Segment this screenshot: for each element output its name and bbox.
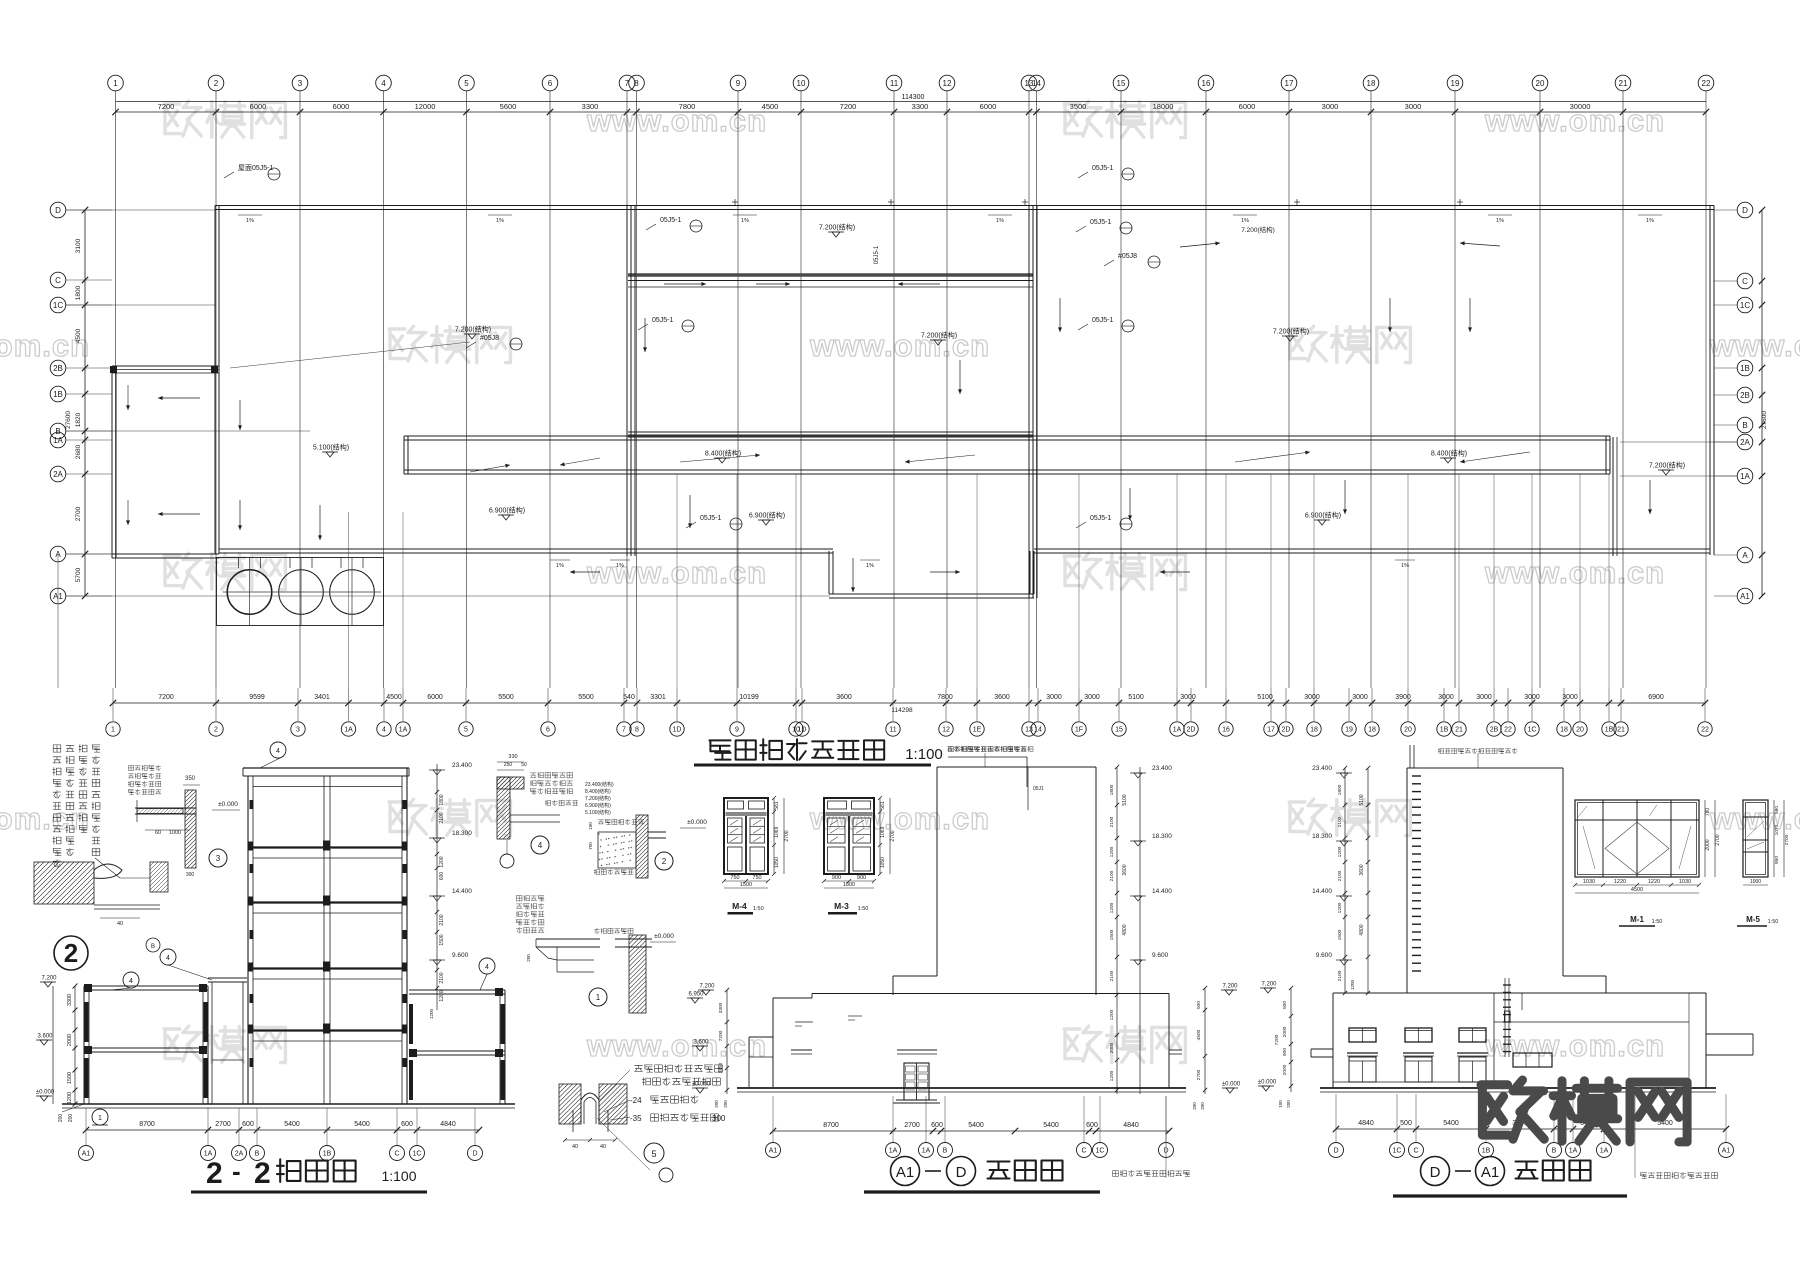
svg-text:05J5-1: 05J5-1	[1092, 317, 1114, 324]
svg-text:16: 16	[1202, 79, 1211, 88]
svg-text:900: 900	[832, 875, 841, 881]
svg-text:600: 600	[439, 872, 445, 881]
circled 2 big detail mark	[54, 936, 88, 970]
svg-text:1200: 1200	[67, 1092, 73, 1104]
svg-text:6900: 6900	[1648, 694, 1664, 701]
svg-text:5.100(结构): 5.100(结构)	[313, 443, 349, 452]
svg-text:17: 17	[1267, 727, 1275, 734]
svg-text:1A: 1A	[922, 1148, 931, 1155]
svg-text:2000: 2000	[1705, 839, 1711, 850]
svg-text:5: 5	[464, 727, 468, 734]
svg-text:4500: 4500	[1631, 887, 1643, 893]
svg-text:23.400: 23.400	[1312, 765, 1332, 772]
svg-text:4: 4	[166, 955, 170, 962]
svg-text:350: 350	[185, 776, 196, 782]
svg-text:1A: 1A	[344, 727, 353, 734]
svg-text:19: 19	[1345, 727, 1353, 734]
svg-text:1D: 1D	[798, 727, 807, 734]
svg-text:2000: 2000	[1282, 1026, 1288, 1037]
svg-text:3000: 3000	[1438, 694, 1454, 701]
svg-text:1A: 1A	[1740, 472, 1750, 481]
svg-text:1000: 1000	[1750, 879, 1761, 885]
svg-text:5400: 5400	[284, 1121, 300, 1128]
svg-text:20: 20	[1536, 79, 1545, 88]
svg-text:2100: 2100	[1109, 970, 1115, 981]
svg-text:D: D	[55, 206, 61, 215]
svg-text:5700: 5700	[75, 567, 82, 582]
svg-text:A1: A1	[1481, 1164, 1499, 1181]
svg-text:18.300: 18.300	[452, 830, 472, 837]
svg-text:200: 200	[714, 1100, 719, 1108]
svg-text:7: 7	[622, 727, 626, 734]
svg-text:600: 600	[401, 1121, 413, 1128]
svg-text:2100: 2100	[1337, 816, 1343, 827]
window M-4	[724, 798, 768, 874]
svg-text:200: 200	[1286, 1100, 1291, 1108]
svg-text:200: 200	[1192, 1102, 1197, 1110]
elevation A1-D right outer chain	[1204, 988, 1206, 1094]
svg-text:2: 2	[254, 1157, 271, 1190]
svg-text:900: 900	[1282, 1048, 1288, 1056]
elevation A1-D low building	[812, 993, 1169, 995]
svg-text:23.400(结构): 23.400(结构)	[585, 781, 614, 788]
elevation A1-D bottom bubbles	[766, 1143, 781, 1158]
svg-text:6.900(结构): 6.900(结构)	[749, 511, 785, 520]
svg-text:2100: 2100	[1109, 816, 1115, 827]
svg-text:950: 950	[1774, 856, 1780, 864]
svg-text:5500: 5500	[498, 694, 514, 701]
svg-text:B: B	[1552, 1148, 1557, 1155]
svg-text:5500: 5500	[578, 694, 594, 701]
svg-text:1A: 1A	[53, 436, 63, 445]
svg-text:6000: 6000	[333, 102, 350, 111]
svg-text:3500: 3500	[1070, 102, 1087, 111]
svg-text:9.600: 9.600	[452, 952, 469, 959]
svg-text:1C: 1C	[1096, 1148, 1105, 1155]
svg-text:3000: 3000	[1352, 694, 1368, 701]
detail 5	[559, 1084, 581, 1124]
svg-text:18: 18	[1310, 727, 1318, 734]
svg-text:100: 100	[1278, 1100, 1283, 1108]
svg-text:1: 1	[596, 993, 601, 1002]
elevation D-A1 title	[1421, 1157, 1450, 1186]
svg-text:1200: 1200	[1109, 846, 1115, 857]
svg-text:2100: 2100	[1337, 970, 1343, 981]
svg-text:7800: 7800	[679, 102, 696, 111]
svg-text:1C: 1C	[1393, 1148, 1402, 1155]
svg-text:2B: 2B	[53, 364, 63, 373]
svg-text:9.600: 9.600	[1152, 952, 1169, 959]
detail 2	[636, 815, 648, 878]
svg-text:D: D	[1742, 206, 1748, 215]
svg-text:5400: 5400	[968, 1122, 984, 1129]
svg-text:1200: 1200	[439, 856, 445, 867]
svg-text:1:50: 1:50	[753, 906, 764, 912]
svg-text:200: 200	[58, 1114, 64, 1123]
svg-text:±0.000: ±0.000	[218, 801, 238, 808]
big watermark OMW dark	[1481, 1080, 1544, 1139]
svg-text:1E: 1E	[973, 727, 982, 734]
svg-text:3000: 3000	[1322, 102, 1339, 111]
svg-text:±0.000: ±0.000	[1258, 1080, 1277, 1086]
svg-text:2100: 2100	[1109, 870, 1115, 881]
svg-text:1069: 1069	[774, 826, 780, 837]
elevation A1-D top note	[947, 747, 952, 751]
svg-text:18: 18	[1560, 727, 1568, 734]
svg-text:1050: 1050	[774, 857, 780, 868]
svg-text:05J5-1: 05J5-1	[1090, 515, 1112, 522]
svg-text:2700: 2700	[1784, 834, 1790, 845]
svg-text:M-1: M-1	[1630, 915, 1644, 924]
elevation A1-D tower	[937, 766, 1096, 768]
slope arrows	[319, 505, 321, 540]
svg-text:19: 19	[1451, 79, 1460, 88]
svg-text:2A: 2A	[1740, 438, 1750, 447]
svg-text:23.400: 23.400	[1152, 765, 1172, 772]
far left eaves detail hatch	[34, 862, 94, 904]
svg-text:2700: 2700	[1196, 1069, 1202, 1080]
svg-text:3000: 3000	[1304, 694, 1320, 701]
svg-text:05J5-1: 05J5-1	[700, 515, 722, 522]
svg-text:2000: 2000	[1282, 1064, 1288, 1075]
svg-text:14: 14	[1032, 79, 1041, 88]
svg-text:14.400: 14.400	[1312, 888, 1332, 895]
axis 13/14 double wall	[1028, 205, 1030, 598]
svg-text:2A: 2A	[53, 470, 63, 479]
svg-text:500: 500	[1196, 1001, 1202, 1009]
svg-text:17: 17	[1285, 79, 1294, 88]
svg-text:1:100: 1:100	[381, 1168, 416, 1184]
svg-text:±0.000: ±0.000	[1222, 1082, 1241, 1088]
svg-text:900: 900	[857, 875, 866, 881]
svg-text:8.400(结构): 8.400(结构)	[1431, 449, 1467, 458]
svg-text:3000: 3000	[1084, 694, 1100, 701]
svg-text:1:100: 1:100	[905, 746, 943, 763]
roof plan outline	[215, 205, 1714, 207]
svg-text:1B: 1B	[323, 1151, 332, 1158]
svg-text:#05J8: #05J8	[480, 335, 499, 342]
section dims left	[52, 986, 54, 1104]
svg-text:18.300: 18.300	[1152, 833, 1172, 840]
svg-text:14.400: 14.400	[1152, 888, 1172, 895]
svg-text:1: 1	[111, 727, 115, 734]
roof plan title	[709, 740, 730, 759]
svg-text:7.200(结构): 7.200(结构)	[585, 795, 611, 802]
svg-text:7200: 7200	[1274, 1034, 1280, 1045]
svg-text:1%: 1%	[616, 563, 624, 569]
svg-text:1220: 1220	[1648, 879, 1660, 885]
svg-text:4: 4	[382, 727, 386, 734]
svg-text:18000: 18000	[1153, 102, 1174, 111]
svg-text:A1: A1	[1740, 592, 1750, 601]
elevation D-A1 top note	[1438, 748, 1443, 753]
svg-text:1C: 1C	[53, 301, 63, 310]
svg-text:500: 500	[1400, 1120, 1412, 1127]
svg-text:A1: A1	[896, 1164, 914, 1181]
svg-text:600: 600	[242, 1121, 254, 1128]
svg-text:780: 780	[1705, 808, 1711, 817]
svg-text:4: 4	[129, 978, 133, 985]
svg-text:1800: 1800	[439, 794, 445, 805]
svg-text:3: 3	[296, 727, 300, 734]
svg-text:±0.000: ±0.000	[654, 933, 674, 940]
svg-text:250: 250	[504, 762, 513, 768]
elevation A1-D left chain	[726, 990, 728, 1094]
svg-text:B: B	[943, 1148, 948, 1155]
svg-text:7.200(结构): 7.200(结构)	[1241, 225, 1275, 234]
svg-text:27600: 27600	[65, 411, 72, 429]
svg-text:1C: 1C	[1528, 727, 1537, 734]
svg-text:200: 200	[526, 954, 531, 962]
svg-text:4: 4	[276, 748, 280, 755]
svg-text:www.om.cn: www.om.cn	[1709, 801, 1800, 836]
svg-text:6.900(结构): 6.900(结构)	[585, 802, 611, 809]
small windows mid part	[1513, 1053, 1552, 1067]
svg-text:12: 12	[943, 79, 952, 88]
svg-text:2D: 2D	[1187, 727, 1196, 734]
svg-text:www.om.cn: www.om.cn	[0, 801, 90, 836]
svg-text:1500: 1500	[67, 1072, 73, 1084]
svg-text:5100: 5100	[1128, 694, 1144, 701]
svg-text:18: 18	[1368, 727, 1376, 734]
elevation D-A1 bottom bubbles	[1329, 1143, 1344, 1158]
svg-text:www.om.cn: www.om.cn	[1484, 1028, 1665, 1063]
svg-text:6.900(结构): 6.900(结构)	[489, 506, 525, 515]
svg-text:4800: 4800	[1122, 924, 1128, 935]
svg-text:8: 8	[635, 727, 639, 734]
svg-text:4500: 4500	[386, 694, 402, 701]
section 2-2 tower	[243, 767, 409, 769]
svg-text:1%: 1%	[866, 563, 874, 569]
svg-text:3: 3	[216, 854, 221, 863]
svg-text:1500: 1500	[1109, 929, 1115, 940]
svg-text:14: 14	[1034, 727, 1042, 734]
svg-text:4: 4	[381, 79, 386, 88]
svg-text:300: 300	[186, 872, 195, 878]
elevation D-A1 left outer chain	[1290, 988, 1292, 1092]
svg-text:C: C	[1742, 277, 1748, 286]
section bottom dims	[86, 1129, 479, 1131]
svg-text:3: 3	[298, 79, 303, 88]
svg-text:40: 40	[117, 921, 123, 927]
svg-text:www.om.cn: www.om.cn	[809, 801, 990, 836]
svg-text:20: 20	[1404, 727, 1412, 734]
svg-text:1030: 1030	[1583, 879, 1595, 885]
svg-text:1A: 1A	[399, 727, 408, 734]
svg-text:3301: 3301	[650, 694, 666, 701]
svg-text:40: 40	[600, 1144, 606, 1150]
svg-text:3850: 3850	[718, 1062, 724, 1073]
svg-text:1B: 1B	[1440, 727, 1449, 734]
svg-text:40: 40	[572, 1144, 578, 1150]
svg-text:114300: 114300	[902, 94, 925, 101]
svg-text:www.om.cn: www.om.cn	[809, 328, 990, 363]
svg-text:4500: 4500	[1196, 1029, 1202, 1040]
svg-text:7.200(结构): 7.200(结构)	[1273, 327, 1309, 336]
svg-text:1A: 1A	[1600, 1148, 1609, 1155]
svg-text:3401: 3401	[314, 694, 330, 701]
svg-text:18: 18	[1367, 79, 1376, 88]
svg-text:C: C	[55, 276, 61, 285]
svg-text:4840: 4840	[1123, 1122, 1139, 1129]
svg-text:M-3: M-3	[834, 901, 849, 911]
svg-text:6000: 6000	[980, 102, 997, 111]
svg-text:2700: 2700	[890, 830, 896, 841]
svg-text:D: D	[956, 1164, 967, 1181]
svg-text:D: D	[1430, 1164, 1441, 1181]
elevation A1-D right dim chain	[1116, 767, 1118, 1094]
svg-text:22: 22	[1701, 727, 1709, 734]
svg-text:1%: 1%	[1496, 218, 1504, 224]
svg-text:1%: 1%	[496, 218, 504, 224]
svg-text:M-5: M-5	[1746, 915, 1760, 924]
svg-text:3100: 3100	[75, 238, 82, 253]
svg-text:7.200(结构): 7.200(结构)	[921, 331, 957, 340]
svg-text:10199: 10199	[739, 694, 759, 701]
grid lines vertical	[115, 91, 117, 688]
svg-text:580: 580	[1774, 806, 1780, 814]
svg-text:200: 200	[68, 1114, 74, 1123]
svg-text:05J5-1: 05J5-1	[652, 317, 674, 324]
svg-text:600: 600	[1086, 1122, 1098, 1129]
svg-text:1:50: 1:50	[858, 906, 869, 912]
svg-text:6000: 6000	[1239, 102, 1256, 111]
svg-text:3300: 3300	[718, 1002, 724, 1013]
elevation A1-D door canopy	[897, 1049, 937, 1051]
roof plan column grid bubbles top	[108, 75, 124, 91]
top dimension lines	[116, 101, 1707, 103]
svg-text:9599: 9599	[249, 694, 265, 701]
svg-text:1A: 1A	[1173, 727, 1182, 734]
svg-text:2100: 2100	[439, 972, 445, 983]
svg-text:6.950: 6.950	[688, 992, 704, 998]
svg-text:2000: 2000	[67, 1034, 73, 1046]
svg-text:2100: 2100	[439, 812, 445, 823]
svg-text:7.200(结构): 7.200(结构)	[819, 223, 855, 232]
svg-text:581: 581	[774, 801, 780, 810]
section bottom bubbles	[79, 1146, 94, 1161]
elevation A1-D ground	[737, 1087, 1186, 1089]
svg-text:12: 12	[942, 727, 950, 734]
svg-text:1C: 1C	[1740, 301, 1750, 310]
svg-text:15: 15	[1115, 727, 1123, 734]
svg-text:1200: 1200	[1337, 846, 1343, 857]
window M-5	[1743, 800, 1768, 877]
svg-text:6: 6	[546, 727, 550, 734]
svg-text:3300: 3300	[67, 994, 73, 1006]
svg-text:1A: 1A	[1569, 1148, 1578, 1155]
svg-text:1%: 1%	[556, 563, 564, 569]
svg-text:1%: 1%	[996, 218, 1004, 224]
svg-text:-24: -24	[630, 1096, 642, 1105]
svg-text:6.900(结构): 6.900(结构)	[1305, 511, 1341, 520]
svg-text:4800: 4800	[1359, 924, 1365, 935]
8.400 gutter strip	[404, 435, 1610, 437]
svg-text:2: 2	[64, 938, 78, 968]
svg-text:2: 2	[662, 857, 667, 866]
svg-text:21: 21	[1617, 727, 1625, 734]
svg-text:D: D	[472, 1151, 477, 1158]
svg-text:1500: 1500	[1337, 929, 1343, 940]
svg-text:1200: 1200	[1350, 979, 1355, 990]
svg-text:3600: 3600	[836, 694, 852, 701]
elevation D-A1 ground	[1320, 1087, 1716, 1089]
svg-text:±0.000: ±0.000	[687, 819, 707, 826]
svg-text:3000: 3000	[1562, 694, 1578, 701]
svg-text:750: 750	[730, 875, 739, 881]
svg-text:1069: 1069	[880, 826, 886, 837]
svg-text:8.400(结构): 8.400(结构)	[705, 449, 741, 458]
svg-text:C: C	[394, 1151, 399, 1158]
svg-text:5: 5	[464, 79, 469, 88]
svg-text:1800: 1800	[1109, 784, 1115, 795]
elevation D-A1 left dim chains	[1344, 768, 1346, 993]
mid ladder	[1503, 984, 1511, 986]
svg-text:B: B	[1742, 421, 1747, 430]
svg-text:1B: 1B	[1740, 364, 1750, 373]
svg-text:1070: 1070	[1774, 824, 1780, 835]
svg-text:3.600: 3.600	[693, 1040, 709, 1046]
svg-text:10: 10	[797, 79, 806, 88]
svg-text:8.400(结构): 8.400(结构)	[585, 788, 611, 795]
svg-text:05J5-1: 05J5-1	[1092, 165, 1114, 172]
svg-text:6000: 6000	[427, 694, 443, 701]
svg-text:-35: -35	[630, 1114, 642, 1123]
svg-text:2700: 2700	[784, 830, 790, 841]
svg-text:1F: 1F	[1075, 727, 1083, 734]
svg-text:1820: 1820	[75, 412, 82, 427]
svg-text:4: 4	[538, 841, 543, 850]
svg-text:3000: 3000	[1180, 694, 1196, 701]
svg-text:±0.000: ±0.000	[692, 1082, 711, 1088]
svg-text:1800: 1800	[843, 882, 855, 888]
svg-text:A1: A1	[1722, 1148, 1731, 1155]
svg-text:2700: 2700	[215, 1121, 231, 1128]
axis 7/8 double wall	[626, 205, 628, 556]
svg-text:-: -	[232, 1156, 241, 1186]
svg-text:500: 500	[1282, 1001, 1288, 1009]
svg-text:3300: 3300	[912, 102, 929, 111]
svg-text:1: 1	[113, 79, 118, 88]
svg-text:1800: 1800	[75, 285, 82, 300]
ladder rungs on tower	[1412, 775, 1421, 777]
svg-text:5100: 5100	[1122, 794, 1128, 805]
center roof panel	[628, 273, 1033, 276]
svg-text:21: 21	[1455, 727, 1463, 734]
svg-text:B: B	[55, 427, 60, 436]
svg-text:5400: 5400	[1443, 1120, 1459, 1127]
windows left part	[1349, 1028, 1376, 1042]
svg-text:#05J8: #05J8	[1118, 253, 1137, 260]
svg-text:D: D	[1333, 1148, 1338, 1155]
svg-text:2: 2	[214, 79, 219, 88]
svg-text:2100: 2100	[439, 914, 445, 925]
svg-text:6000: 6000	[250, 102, 267, 111]
svg-text:www.om.cn: www.om.cn	[1709, 328, 1800, 363]
svg-text:540: 540	[623, 694, 635, 701]
elevation A1-D top tick texts	[795, 1021, 813, 1023]
section left annex	[84, 985, 208, 987]
svg-text:4: 4	[485, 964, 489, 971]
svg-text:3900: 3900	[1395, 694, 1411, 701]
svg-text:1:50: 1:50	[1652, 919, 1663, 925]
svg-text:www.om.cn: www.om.cn	[586, 103, 767, 138]
svg-text:7200: 7200	[158, 102, 175, 111]
svg-text:20: 20	[1576, 727, 1584, 734]
elevation A1-D title	[891, 1157, 920, 1186]
svg-text:7800: 7800	[937, 694, 953, 701]
svg-text:4840: 4840	[440, 1121, 456, 1128]
